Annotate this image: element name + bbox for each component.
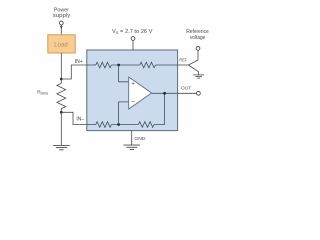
wire node B to ground (60, 112, 62, 145)
wire IN+ row (87, 64, 96, 66)
wire power to load with current arrow (60, 25, 62, 35)
ground (left) (53, 145, 70, 149)
svg-text:IN–: IN– (76, 117, 84, 123)
resistor RSENSE (57, 79, 66, 112)
svg-text:REF: REF (179, 57, 187, 63)
wire top node to op-amp + input (119, 65, 129, 82)
wire load to node A (60, 53, 62, 79)
svg-text:supply: supply (53, 13, 71, 19)
wire OUT pin out (178, 92, 197, 94)
node bottom junction (117, 123, 120, 126)
load box (48, 35, 75, 53)
node top junction (117, 64, 120, 67)
wire R4 to output node (154, 93, 165, 124)
svg-text:OUT: OUT (181, 86, 191, 92)
resistor R4 (feedback) (138, 122, 154, 128)
wire R3 to R4 (111, 124, 138, 126)
wire REF pin out (178, 64, 189, 66)
resistor R1 (input, top) (96, 62, 112, 68)
node A junction (60, 78, 63, 81)
VS terminal (131, 37, 135, 41)
ground (center) (124, 145, 141, 149)
wire R2 to REF pin (155, 64, 177, 66)
wire REF to ground option (189, 65, 199, 75)
wire R1 to R2 (111, 64, 139, 66)
svg-text:GND: GND (134, 136, 146, 142)
svg-text:+: + (131, 80, 135, 87)
OUT terminal (197, 91, 201, 95)
wire VS to IC (132, 40, 134, 50)
wire bottom node to op-amp - input (119, 102, 129, 125)
node output junction (163, 92, 166, 95)
svg-text:VS = 2.7 to 26 V: VS = 2.7 to 26 V (112, 29, 153, 35)
svg-text:–: – (131, 98, 135, 105)
wire node A to IN+ pin (61, 65, 87, 79)
node B junction (60, 111, 63, 114)
ground (REF, small) (193, 75, 204, 78)
svg-text:voltage: voltage (190, 35, 205, 41)
svg-text:IN+: IN+ (75, 59, 83, 65)
wire node B to IN- pin (61, 112, 87, 124)
wire REF to reference terminal (189, 50, 199, 65)
op-amp U1 (129, 77, 152, 109)
resistor R2 (to REF, top right) (140, 62, 156, 68)
svg-text:Load: Load (54, 42, 67, 48)
wire IN- row (87, 124, 96, 126)
IC U1 body (87, 50, 178, 131)
wire GND pin (131, 131, 133, 145)
power supply terminal (59, 21, 63, 25)
wire op-amp output (152, 92, 178, 94)
reference voltage terminal (196, 47, 200, 51)
resistor R3 (input, bottom) (96, 122, 112, 128)
